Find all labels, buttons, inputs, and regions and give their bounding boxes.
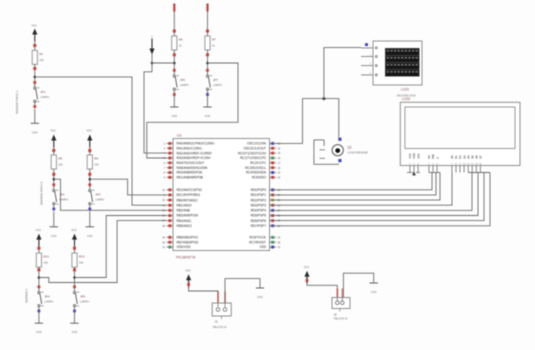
svg-text:RC7/RX/DT: RC7/RX/DT [249, 240, 266, 244]
svg-text:D0: D0 [450, 155, 454, 159]
svg-text:VDD: VDD [412, 153, 416, 159]
wire LCD1 drop [324, 48, 361, 99]
wire bus D2 [270, 173, 441, 201]
pin 5 RA3/AN3/VREF+/C1IN+ [167, 157, 174, 159]
power terminal arrow [87, 135, 92, 141]
wire [89, 211, 91, 227]
pin 38 RB5/AN13 [167, 225, 174, 227]
wire [53, 147, 55, 155]
J2 pin states [337, 289, 339, 298]
svg-text:VSS: VSS [408, 153, 412, 159]
wire bus D3 [270, 173, 453, 206]
svg-text:RA1/AN1/C12IN1-: RA1/AN1/C12IN1- [177, 146, 203, 150]
resistor R12 [36, 253, 41, 267]
wire [207, 11, 209, 36]
svg-text:VEE: VEE [416, 153, 420, 159]
svg-text:R1: R1 [39, 52, 43, 56]
pin 35 RB2/AN8 [167, 209, 174, 211]
svg-text:D1: D1 [454, 155, 458, 159]
svg-text:PIC16F877A: PIC16F877A [176, 256, 196, 260]
svg-text:JP3: JP3 [95, 193, 101, 197]
resistor R1 [32, 50, 37, 64]
power flag R6 [173, 4, 175, 12]
svg-text:GND: GND [257, 295, 263, 299]
svg-text:VCC: VCC [71, 228, 77, 232]
svg-text:JP4: JP4 [44, 295, 50, 299]
svg-text:GND: GND [371, 290, 377, 294]
svg-text:RB5/AN13: RB5/AN13 [177, 224, 192, 228]
wire [53, 169, 55, 187]
wire [89, 147, 91, 155]
ground [70, 322, 78, 324]
svg-text:RD3/PSP3: RD3/PSP3 [251, 203, 267, 207]
switch JP4 [38, 285, 41, 288]
svg-text:GND: GND [171, 114, 177, 118]
node R13 [73, 276, 76, 279]
pin 4 RA2/AN2/VREF-/CVREF [167, 152, 174, 154]
terminal block J2 [332, 298, 350, 309]
resistor R13 [72, 253, 77, 267]
svg-text:VCC: VCC [87, 129, 93, 133]
svg-text:D7: D7 [479, 155, 483, 159]
wire net R13 to MCU [75, 216, 167, 278]
LCD1 screen [385, 48, 420, 77]
svg-text:R13: R13 [79, 255, 85, 259]
wire net branch1 to MCU [35, 77, 167, 205]
wire [38, 246, 40, 253]
wire [38, 311, 40, 323]
svg-text:RA0/AN0/ULPWU/C12IN0-: RA0/AN0/ULPWU/C12IN0- [177, 142, 215, 146]
wire bus D7 [270, 173, 491, 226]
svg-text:RC4/SDI/SDA: RC4/SDI/SDA [246, 171, 267, 175]
svg-text:SENSOR PINTU 2: SENSOR PINTU 2 [40, 181, 44, 205]
pin 21 RD2/PSP2 [270, 199, 277, 201]
wire [173, 11, 175, 36]
wire bus D4 [270, 173, 473, 211]
svg-text:R7: R7 [212, 38, 216, 42]
switch JP5 [73, 285, 76, 288]
power terminal arrow [51, 135, 56, 141]
resistor R8 [51, 155, 56, 169]
pin 11 VDD/VSS [167, 246, 174, 248]
svg-text:RA5/AN4/SS/HLVDIN: RA5/AN4/SS/HLVDIN [177, 166, 208, 170]
svg-text:LAMPU: LAMPU [80, 300, 89, 304]
wire net R9 to MCU [90, 179, 167, 195]
svg-text:VCC: VCC [36, 228, 42, 232]
svg-text:D2: D2 [458, 155, 462, 159]
svg-text:R9: R9 [94, 157, 98, 161]
svg-text:RE2/AN7/CS/P3C: RE2/AN7/CS/P3C [177, 188, 203, 192]
wire bus D5 [270, 173, 479, 216]
svg-text:RA4/T0CKI/C1OUT: RA4/T0CKI/C1OUT [177, 161, 205, 165]
svg-text:OSC2/CLKOUT: OSC2/CLKOUT [244, 146, 267, 150]
svg-text:LAMPU: LAMPU [44, 300, 53, 304]
svg-text:Q1: Q1 [348, 146, 352, 150]
svg-text:RB2/AN8: RB2/AN8 [177, 209, 191, 213]
svg-text:VCC: VCC [185, 269, 191, 273]
sounder pin state bottom [338, 159, 341, 162]
sounder pin state top [338, 138, 341, 141]
svg-text:D5: D5 [470, 155, 474, 159]
svg-text:RC0/T1OSO/T1CKI: RC0/T1OSO/T1CKI [238, 151, 266, 155]
svg-text:RB4/AN11: RB4/AN11 [177, 219, 192, 223]
node R7 [206, 62, 209, 65]
svg-text:TBLOCK-I2: TBLOCK-I2 [334, 317, 348, 321]
power terminal arrow [72, 234, 77, 240]
switch JP2 [52, 183, 55, 186]
svg-text:RC6/TX/CK: RC6/TX/CK [249, 236, 267, 240]
node R9 [89, 178, 92, 181]
pin 30 RD7/PSP7 [270, 225, 277, 227]
switch JP7 [206, 69, 209, 72]
wire J2 to ground [343, 273, 373, 297]
wire [74, 267, 76, 289]
pin 14 OSC2/CLKOUT [270, 147, 277, 149]
svg-text:GND: GND [32, 130, 38, 134]
wire [207, 50, 209, 73]
svg-text:U1: U1 [177, 134, 182, 138]
switch JP6 [173, 69, 176, 72]
power terminal arrow [304, 271, 309, 277]
svg-text:RD2/PSP2: RD2/PSP2 [251, 198, 267, 202]
node junction LCD1 [322, 97, 325, 100]
LCD2 power pins marks [407, 172, 413, 174]
wire J1 to ground [225, 279, 260, 303]
node R8 [53, 178, 56, 181]
pin 17 RC2/CCP1 [270, 162, 277, 164]
svg-text:JP7: JP7 [213, 78, 219, 82]
svg-text:RD4/PSP4: RD4/PSP4 [251, 209, 267, 213]
LCD2 screen [405, 107, 515, 149]
svg-text:LAMPU: LAMPU [180, 83, 189, 87]
svg-text:J2: J2 [334, 313, 338, 317]
wire bus D1 [270, 173, 437, 195]
pin 3 RA1/AN1/C12IN1- [167, 147, 174, 149]
wire bus links to pins [429, 172, 440, 174]
svg-text:LAMPU: LAMPU [40, 95, 49, 99]
svg-text:R12: R12 [43, 255, 49, 259]
pin 2 RA0/AN0/ULPWU/C12IN0- [167, 142, 174, 144]
svg-text:GND: GND [87, 234, 93, 238]
wire bus D6 [270, 173, 485, 221]
svg-text:SENSOR 3: SENSOR 3 [25, 288, 29, 303]
pin 18 RC3/SCK/SCL [270, 167, 277, 169]
svg-text:GND: GND [36, 330, 42, 334]
svg-text:RB3/AN9/PGM: RB3/AN9/PGM [177, 214, 199, 218]
LCD1 pin 1 [361, 47, 373, 49]
wire [34, 41, 36, 50]
svg-text:D6: D6 [475, 155, 479, 159]
pin 8 RE0/AN5/RD/P3A [167, 172, 174, 174]
svg-text:RA3/AN3/VREF+/C1IN+: RA3/AN3/VREF+/C1IN+ [177, 156, 212, 160]
pin 40 RB7/KBI3/PGD [167, 241, 174, 243]
resistor R6 [172, 36, 177, 50]
wire [207, 95, 209, 107]
LCD1 pin 4 [361, 74, 373, 76]
svg-text:VDD/VSS: VDD/VSS [177, 245, 191, 249]
wire [173, 95, 175, 107]
pin 10 RE2/AN7/CS/P3C [167, 189, 174, 191]
svg-text:RB6/KBI2/PGC: RB6/KBI2/PGC [177, 236, 199, 240]
wire MCU to sounder/LCD1 net [270, 99, 339, 144]
ground [256, 287, 264, 289]
pin 15 RC0/T1OSO/T1CKI [270, 152, 277, 154]
wire [74, 246, 76, 253]
svg-text:RE1/AN6/WR/P3B: RE1/AN6/WR/P3B [177, 176, 203, 180]
power terminal arrow [36, 234, 41, 240]
pin 26 RC7/RX/DT [270, 241, 277, 243]
svg-text:10k: 10k [79, 261, 84, 265]
svg-text:JP1: JP1 [40, 90, 46, 94]
wire [53, 211, 55, 227]
LCD2 pin stubs [409, 166, 411, 173]
svg-text:RC1/T1OSI/CCP2: RC1/T1OSI/CCP2 [240, 156, 266, 160]
svg-text:VCC: VCC [304, 265, 310, 269]
svg-text:SENSOR PINTU 1: SENSOR PINTU 1 [15, 90, 19, 114]
wire [34, 64, 36, 86]
wire VCC to J2 [307, 283, 337, 298]
pin 27 RD4/PSP4 [270, 209, 277, 211]
svg-text:RA2/AN2/VREF-/CVREF: RA2/AN2/VREF-/CVREF [177, 151, 212, 155]
svg-text:LCD1: LCD1 [401, 88, 409, 92]
pin 23 RC4/SDI/SDA [270, 172, 277, 174]
pin 6 RA4/T0CKI/C1OUT [167, 162, 174, 164]
svg-text:RS: RS [427, 155, 431, 159]
svg-text:RD1/PSP1: RD1/PSP1 [251, 193, 267, 197]
svg-text:JP6: JP6 [180, 78, 186, 82]
terminal block J1 [212, 303, 231, 316]
svg-text:RB7/KBI3/PGD: RB7/KBI3/PGD [177, 240, 199, 244]
svg-text:LAMPU: LAMPU [213, 83, 222, 87]
J1 pin states [217, 292, 219, 303]
svg-text:LOUD-SPEAKER: LOUD-SPEAKER [348, 151, 368, 155]
svg-text:JP5: JP5 [80, 295, 86, 299]
pin 34 RB1/AN10 [167, 204, 174, 206]
svg-text:MCLR/VPP/RE3: MCLR/VPP/RE3 [177, 193, 201, 197]
pin 24 RC5/SDO [270, 176, 277, 178]
pin 19 RD0/PSP0 [270, 189, 277, 191]
wire [34, 109, 36, 124]
svg-text:E: E [435, 157, 439, 159]
svg-text:RD0/PSP0: RD0/PSP0 [251, 188, 267, 192]
pin 37 RB4/AN11 [167, 220, 174, 222]
svg-text:RE0/AN5/RD/P3A: RE0/AN5/RD/P3A [177, 171, 204, 175]
svg-text:RB0/INT/AN12: RB0/INT/AN12 [177, 198, 198, 202]
svg-text:TBLOCK-I2: TBLOCK-I2 [213, 325, 227, 329]
wire [74, 311, 76, 323]
resistor R9 [87, 155, 92, 169]
svg-text:10k: 10k [58, 163, 63, 167]
svg-text:10k: 10k [94, 163, 99, 167]
svg-text:RC5/SDO: RC5/SDO [252, 176, 267, 180]
pin 1 MCLR/VPP/RE3 [167, 194, 174, 196]
svg-text:D4: D4 [466, 155, 470, 159]
svg-text:RD5/PSP5: RD5/PSP5 [251, 214, 267, 218]
ground [86, 226, 94, 228]
svg-text:VCC: VCC [51, 129, 57, 133]
svg-text:10k: 10k [43, 261, 48, 265]
power terminal arrow [32, 29, 37, 35]
ground [50, 226, 58, 228]
svg-text:LAMPU: LAMPU [95, 198, 104, 202]
power flag R7 [206, 4, 208, 12]
sounder Q1 [314, 140, 343, 164]
svg-text:D3: D3 [462, 155, 466, 159]
power terminal arrow [186, 274, 191, 280]
wire net R8 to MCU [54, 179, 167, 210]
ground [370, 282, 378, 284]
pin 9 RE1/AN6/WR/P3B [167, 176, 174, 178]
wire net R6 to MCU [144, 63, 174, 153]
ground [31, 122, 39, 124]
svg-text:GND: GND [205, 114, 211, 118]
wire [89, 169, 91, 187]
pin 7 RA5/AN4/SS/HLVDIN [167, 167, 174, 169]
LCD1 pin state [365, 43, 368, 46]
svg-text:10k: 10k [39, 58, 44, 62]
svg-text:RD7/PSP7: RD7/PSP7 [251, 224, 267, 228]
svg-text:RW: RW [431, 154, 435, 159]
svg-text:VCC: VCC [32, 24, 38, 28]
pin 36 RB3/AN9/PGM [167, 215, 174, 217]
svg-text:R6: R6 [179, 38, 183, 42]
svg-text:GND: GND [51, 234, 57, 238]
LCD1 pin 3 [361, 65, 373, 67]
svg-text:R8: R8 [58, 157, 62, 161]
svg-text:RD6/PSP6: RD6/PSP6 [251, 219, 267, 223]
wire bus D0 [270, 173, 433, 190]
switch JP3 [88, 183, 91, 186]
node R12 [38, 276, 41, 279]
ground [35, 322, 43, 324]
ground [203, 106, 211, 108]
switch JP1 [33, 81, 36, 84]
svg-text:OSC1/CLKIN: OSC1/CLKIN [247, 142, 267, 146]
svg-text:RC3/SCK/SCL: RC3/SCK/SCL [245, 166, 266, 170]
svg-text:J1: J1 [215, 320, 219, 324]
wire net R7 to MCU [147, 63, 238, 158]
LCD1 pin 2 [361, 56, 373, 58]
svg-text:RC2/CCP1: RC2/CCP1 [250, 161, 266, 165]
pin 16 RC1/T1OSI/CCP2 [270, 157, 277, 159]
LCD1 module [373, 41, 422, 85]
resistor R7 [205, 36, 210, 50]
wire [38, 267, 40, 289]
pin 25 RC6/TX/CK [270, 236, 277, 238]
pin 12 VSS [270, 246, 277, 248]
svg-text:RB1/AN10: RB1/AN10 [177, 203, 192, 207]
pin 39 RB6/KBI2/PGC [167, 236, 174, 238]
wire VCC to J1 [189, 287, 218, 303]
wire net R12 to MCU [39, 221, 167, 283]
node branch1 [34, 76, 37, 79]
ground [170, 106, 178, 108]
pin 22 RD3/PSP3 [270, 204, 277, 206]
pin 20 RD1/PSP1 [270, 194, 277, 196]
svg-text:LCD2: LCD2 [402, 97, 410, 101]
pin 33 RB0/INT/AN12 [167, 199, 174, 201]
pin 29 RD6/PSP6 [270, 220, 277, 222]
svg-text:=: = [151, 35, 153, 39]
svg-text:VSS: VSS [260, 245, 266, 249]
wire [173, 50, 175, 73]
pin 28 RD5/PSP5 [270, 215, 277, 217]
svg-text:GND: GND [72, 330, 78, 334]
pin 13 OSC1/CLKIN [270, 142, 277, 144]
node R6 [173, 62, 176, 65]
